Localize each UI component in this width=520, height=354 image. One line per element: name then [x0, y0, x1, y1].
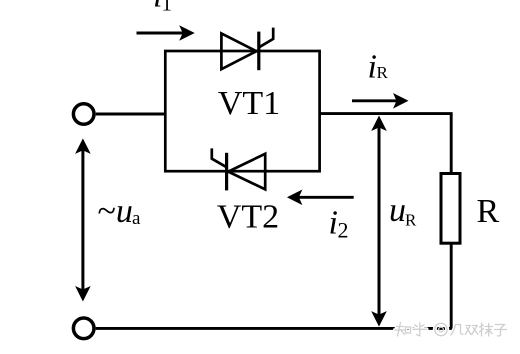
watermark glyph 袜: [480, 323, 493, 336]
output wire from box to load: [320, 112, 453, 115]
svg-text:R: R: [377, 63, 389, 82]
watermark glyph 子: [495, 325, 507, 337]
wire right vertical (bottom, resistor to bottom rail): [450, 244, 453, 330]
svg-text:R: R: [477, 193, 500, 230]
watermark glyph 知: [395, 323, 406, 337]
svg-text:~u: ~u: [98, 193, 133, 230]
svg-text:u: u: [389, 192, 406, 229]
watermark glyph 几: [451, 325, 463, 336]
terminal circle (top-left input): [73, 104, 94, 125]
thyristor VT2 cathode bar: [225, 153, 228, 191]
thyristor VT1 cathode bar: [257, 32, 260, 71]
watermark glyph 乎: [413, 323, 427, 336]
thyristor VT1 triangle (anode left, pointing right): [221, 33, 256, 69]
current arrow iR (points right): [352, 99, 397, 102]
resistor R body: [441, 174, 460, 244]
current arrow i1 (points right): [137, 32, 184, 35]
thyristor branch box: [165, 51, 319, 171]
watermark glyph 双: [465, 326, 478, 335]
svg-text:VT2: VT2: [217, 199, 279, 236]
svg-text:a: a: [132, 208, 141, 229]
watermark halo (white knockout under grey text): [395, 323, 507, 337]
wire right vertical (top, to resistor): [450, 114, 453, 173]
thyristor VT2 triangle (anode right, pointing left): [228, 154, 265, 190]
watermark glyph @: [435, 323, 447, 335]
svg-text:2: 2: [338, 218, 349, 243]
terminal circle (bottom-left input): [73, 318, 94, 339]
watermark text 知乎 @几双袜子 (grey strokes): [395, 323, 507, 337]
voltage arrow uR (double headed): [378, 127, 381, 315]
thyristor VT1 gate lead: [259, 28, 273, 48]
voltage arrow ua (double headed): [81, 150, 84, 290]
current arrow i2 (points left): [298, 196, 354, 199]
thyristor VT2 gate lead: [212, 148, 227, 167]
bottom wire (return rail): [96, 327, 453, 330]
svg-text:1: 1: [162, 0, 173, 16]
svg-text:VT1: VT1: [218, 85, 280, 122]
svg-text:R: R: [405, 211, 417, 230]
wire from top terminal to thyristor box: [96, 113, 167, 116]
